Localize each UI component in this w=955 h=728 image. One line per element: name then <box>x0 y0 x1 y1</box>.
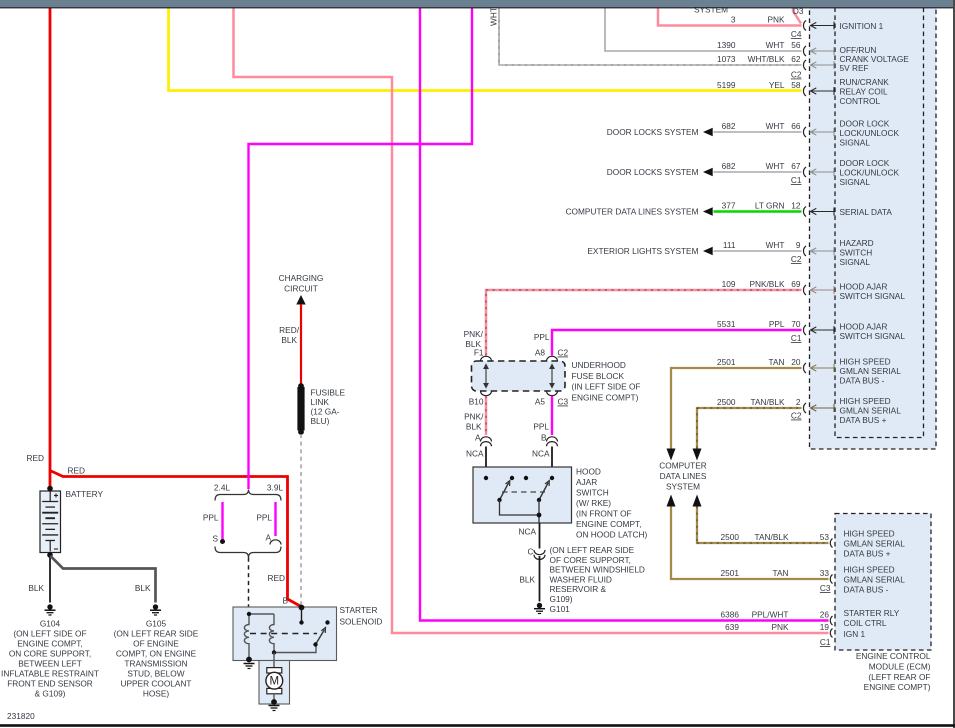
svg-text:STUD, BELOW: STUD, BELOW <box>127 669 184 679</box>
svg-text:FRONT END SENSOR: FRONT END SENSOR <box>7 679 93 689</box>
wire motor feed <box>273 653 275 669</box>
svg-text:B: B <box>282 596 288 606</box>
svg-text:C4: C4 <box>791 29 802 39</box>
svg-text:SWITCH SIGNAL: SWITCH SIGNAL <box>840 331 906 341</box>
svg-text:UPPER COOLANT: UPPER COOLANT <box>121 679 192 689</box>
svg-text:INFLATABLE RESTRAINT: INFLATABLE RESTRAINT <box>1 669 99 679</box>
connector arcs C <box>534 550 545 555</box>
svg-text:PPL: PPL <box>534 332 550 342</box>
starter motor box <box>259 661 290 705</box>
svg-text:RESERVOIR &: RESERVOIR & <box>550 584 607 594</box>
svg-text:ENGINE COMPT,: ENGINE COMPT, <box>17 639 82 649</box>
right window edge <box>953 0 955 728</box>
svg-text:DOOR LOCKS SYSTEM: DOOR LOCKS SYSTEM <box>607 127 699 137</box>
svg-text:682: 682 <box>722 161 736 171</box>
wire magenta PPL stub A <box>274 502 276 536</box>
wire pink 3 ignition-1 horizontal <box>658 8 802 26</box>
node battery negative <box>47 552 53 558</box>
svg-text:WHT: WHT <box>766 161 785 171</box>
svg-text:PNK: PNK <box>771 622 789 632</box>
svg-text:SIGNAL: SIGNAL <box>840 138 871 148</box>
battery box <box>40 491 61 553</box>
svg-text:CONTROL: CONTROL <box>840 96 881 106</box>
svg-text:M: M <box>270 676 280 688</box>
svg-text:WASHER FLUID: WASHER FLUID <box>550 574 612 584</box>
svg-text:FUSE BLOCK: FUSE BLOCK <box>572 371 625 381</box>
solenoid pull-in coil <box>244 614 249 659</box>
svg-text:ON CORE SUPPORT,: ON CORE SUPPORT, <box>9 649 91 659</box>
svg-text:LINK: LINK <box>311 397 330 407</box>
svg-text:19: 19 <box>820 622 830 632</box>
wire motor to ground <box>273 694 275 702</box>
motor brush bottom <box>267 688 282 693</box>
svg-text:YEL: YEL <box>769 80 785 90</box>
svg-text:HIGH SPEED: HIGH SPEED <box>840 357 891 367</box>
svg-text:HIGH SPEED: HIGH SPEED <box>844 565 895 575</box>
node battery positive <box>47 486 53 492</box>
svg-text:GMLAN SERIAL: GMLAN SERIAL <box>844 575 906 585</box>
wire gray 682 WHT pin67 <box>714 171 802 173</box>
svg-text:(ON LEFT REAR SIDE: (ON LEFT REAR SIDE <box>114 629 199 639</box>
svg-text:(12 GA-: (12 GA- <box>311 407 340 417</box>
svg-text:DATA BUS -: DATA BUS - <box>844 585 889 595</box>
brace bottom engine selector <box>215 547 281 558</box>
svg-text:A: A <box>265 533 271 543</box>
node solenoid fixed contact <box>325 620 329 624</box>
node S terminal <box>220 539 225 544</box>
svg-text:CIRCUIT: CIRCUIT <box>284 284 318 294</box>
svg-text:SYSTEM: SYSTEM <box>666 482 700 492</box>
fuse block arc F1 <box>481 356 492 361</box>
svg-text:2500: 2500 <box>717 397 736 407</box>
svg-text:53: 53 <box>820 532 830 542</box>
wire red fusible link to charging <box>300 304 302 386</box>
svg-text:2500: 2500 <box>721 532 740 542</box>
wire black switch to C connector <box>539 523 541 549</box>
svg-text:2.4L: 2.4L <box>214 483 231 493</box>
svg-text:COMPT, ON ENGINE: COMPT, ON ENGINE <box>116 649 197 659</box>
wire tan 2501 pin33 <box>671 506 829 579</box>
svg-text:C1: C1 <box>791 333 802 343</box>
underhood fuse block box <box>472 361 566 391</box>
ground G101 <box>537 603 542 608</box>
svg-text:HOSE): HOSE) <box>143 689 170 699</box>
svg-text:5199: 5199 <box>717 80 736 90</box>
bottom frame bar <box>0 724 955 727</box>
svg-text:BLU): BLU) <box>311 416 330 426</box>
svg-text:DATA BUS -: DATA BUS - <box>840 376 885 386</box>
wire pink 3 ignition-1 from D3 <box>793 8 801 24</box>
svg-text:C2: C2 <box>791 411 802 421</box>
svg-text:DOOR LOCKS SYSTEM: DOOR LOCKS SYSTEM <box>607 167 699 177</box>
fuse block internal arrow left <box>485 365 487 387</box>
svg-text:2501: 2501 <box>721 568 740 578</box>
wire dashed gray fusible link to solenoid B <box>300 434 302 606</box>
svg-text:WHT: WHT <box>766 121 785 131</box>
svg-text:A5: A5 <box>535 397 546 407</box>
svg-text:GMLAN SERIAL: GMLAN SERIAL <box>844 539 906 549</box>
svg-text:WHT: WHT <box>766 240 785 250</box>
svg-text:NCA: NCA <box>466 449 484 459</box>
svg-text:ENGINE COMPT): ENGINE COMPT) <box>864 682 931 692</box>
ground starter solenoid <box>244 663 255 665</box>
svg-text:DATA BUS +: DATA BUS + <box>844 549 891 559</box>
svg-text:GMLAN SERIAL: GMLAN SERIAL <box>840 406 902 416</box>
svg-text:WHT: WHT <box>489 7 499 26</box>
svg-text:MODULE (ECM): MODULE (ECM) <box>869 661 931 671</box>
svg-text:PPL: PPL <box>203 513 219 523</box>
ECM outer box (top right) <box>810 0 937 449</box>
svg-text:OF ENGINE: OF ENGINE <box>133 639 179 649</box>
svg-text:(IN FRONT OF: (IN FRONT OF <box>576 509 632 519</box>
svg-text:STARTER RLY: STARTER RLY <box>844 608 900 618</box>
svg-text:G101: G101 <box>550 604 571 614</box>
svg-text:RED: RED <box>67 466 85 476</box>
arrow up to charging circuit <box>296 295 305 305</box>
svg-text:AJAR: AJAR <box>576 477 597 487</box>
motor brush top <box>267 668 282 673</box>
svg-text:C2: C2 <box>791 254 802 264</box>
svg-text:ENGINE CONTROL: ENGINE CONTROL <box>856 651 931 661</box>
solenoid hold-in coil <box>269 614 274 652</box>
svg-text:GMLAN SERIAL: GMLAN SERIAL <box>840 366 902 376</box>
svg-text:5V REF: 5V REF <box>840 63 869 73</box>
svg-text:C1: C1 <box>820 637 831 647</box>
node motor ground <box>271 699 277 705</box>
wire pink 639 IGN1 <box>234 8 829 633</box>
fusible link F1 <box>297 387 304 431</box>
fuse block arc B10 <box>481 391 492 396</box>
svg-text:LT GRN: LT GRN <box>755 201 785 211</box>
wire coil2 to switch <box>274 645 316 653</box>
svg-text:ENGINE COMPT): ENGINE COMPT) <box>572 393 639 403</box>
svg-text:(ON LEFT REAR SIDE: (ON LEFT REAR SIDE <box>550 545 635 555</box>
wire gray 111 WHT pin9 <box>714 250 802 252</box>
svg-text:66: 66 <box>791 121 801 131</box>
svg-text:ON HOOD LATCH): ON HOOD LATCH) <box>576 530 648 540</box>
wire black battery to G104 <box>49 555 51 603</box>
motor M circle <box>266 672 283 689</box>
ground G104 <box>47 604 52 609</box>
svg-text:20: 20 <box>791 357 801 367</box>
svg-text:67: 67 <box>791 161 801 171</box>
svg-text:2: 2 <box>796 397 801 407</box>
arrow down tan left <box>667 449 676 461</box>
svg-text:BLK: BLK <box>135 583 151 593</box>
svg-text:1073: 1073 <box>717 54 736 64</box>
top window bar <box>0 0 955 7</box>
wire gray battery to G105 <box>51 556 156 603</box>
switch junction node <box>537 513 542 518</box>
svg-text:1390: 1390 <box>717 40 736 50</box>
fuse block arc A8 <box>547 356 558 361</box>
ground G105 <box>153 604 158 609</box>
node solenoid switch pivot <box>313 642 317 646</box>
svg-text:SIGNAL: SIGNAL <box>840 177 871 187</box>
wire B to contact <box>301 608 303 622</box>
svg-text:UNDERHOOD: UNDERHOOD <box>572 360 626 370</box>
svg-text:12: 12 <box>791 201 801 211</box>
svg-text:A8: A8 <box>535 348 546 358</box>
svg-text:BLK: BLK <box>466 422 482 432</box>
svg-text:PNK/: PNK/ <box>464 329 484 339</box>
svg-text:5531: 5531 <box>717 319 736 329</box>
dashed link solenoid <box>250 633 317 635</box>
arrow down tan right <box>693 449 702 461</box>
svg-text:LOCK/UNLOCK: LOCK/UNLOCK <box>840 128 900 138</box>
svg-text:DOOR LOCK: DOOR LOCK <box>840 119 890 129</box>
svg-text:PPL/WHT: PPL/WHT <box>752 610 789 620</box>
svg-text:C2: C2 <box>558 348 569 358</box>
svg-text:9: 9 <box>796 240 801 250</box>
svg-text:EXTERIOR LIGHTS SYSTEM: EXTERIOR LIGHTS SYSTEM <box>587 246 698 256</box>
svg-text:682: 682 <box>722 121 736 131</box>
svg-text:HIGH SPEED: HIGH SPEED <box>840 396 891 406</box>
arrow up tan right <box>693 495 702 507</box>
wire magenta 5531 PPL pin70 to fuse block A8 <box>552 330 802 356</box>
wire pink PNK/BLK fuse to connector A <box>485 396 488 435</box>
node fusible link top <box>298 383 304 389</box>
switch link wires <box>500 500 540 523</box>
wire black C to G101 <box>539 556 541 602</box>
switch dashed mechanical link <box>502 491 545 493</box>
svg-text:S: S <box>212 534 218 544</box>
svg-text:HOOD: HOOD <box>576 467 601 477</box>
wire magenta PPL stub S <box>221 502 223 540</box>
svg-text:COMPUTER: COMPUTER <box>659 461 706 471</box>
switch blade left <box>500 483 509 501</box>
svg-text:SIGNAL: SIGNAL <box>840 257 871 267</box>
wire green 377 LT GRN serial data <box>714 210 802 212</box>
svg-text:SWITCH: SWITCH <box>840 248 873 258</box>
wire dashed black selector to solenoid <box>248 558 250 608</box>
svg-text:G109): G109) <box>550 594 573 604</box>
wire gray 682 WHT pin66 <box>714 131 802 133</box>
svg-text:C3: C3 <box>558 397 569 407</box>
svg-text:(ON LEFT SIDE OF: (ON LEFT SIDE OF <box>13 629 86 639</box>
wire black connector B to switch <box>551 447 553 479</box>
svg-text:TAN/BLK: TAN/BLK <box>751 397 785 407</box>
svg-text:SWITCH SIGNAL: SWITCH SIGNAL <box>840 291 906 301</box>
wire yellow 5199 <box>169 8 802 91</box>
switch pivots <box>497 498 501 502</box>
svg-text:PNK: PNK <box>767 15 785 25</box>
svg-text:109: 109 <box>722 279 736 289</box>
ECM lower box (bottom right) <box>835 514 931 651</box>
svg-text:OF CORE SUPPORT,: OF CORE SUPPORT, <box>550 555 631 565</box>
svg-text:TAN: TAN <box>773 568 789 578</box>
wire tan 2500 TAN/BLK pin53 <box>697 506 829 543</box>
fuse block arc A5 <box>547 391 558 396</box>
ECM inner connector box (top right) <box>835 0 924 438</box>
wire gray 1390 WHT <box>605 8 802 51</box>
svg-text:G104: G104 <box>40 619 61 629</box>
svg-text:(IN LEFT SIDE OF: (IN LEFT SIDE OF <box>572 382 641 392</box>
svg-text:231820: 231820 <box>7 711 35 721</box>
svg-text:BLK: BLK <box>281 335 297 345</box>
svg-text:& G109): & G109) <box>35 689 66 699</box>
wire gray 1073 WHT/BLK <box>499 8 802 65</box>
svg-text:PPL: PPL <box>533 422 549 432</box>
wire tan 2501 pin20 <box>671 368 802 449</box>
node coil2 bottom <box>272 650 276 654</box>
svg-text:SOLENOID: SOLENOID <box>340 617 383 627</box>
wire black connector A to switch <box>485 447 487 479</box>
svg-text:RED: RED <box>26 453 44 463</box>
node fusible link bottom <box>298 429 304 435</box>
wire coil link <box>249 613 274 615</box>
svg-text:IGN 1: IGN 1 <box>844 629 866 639</box>
svg-text:SWITCH: SWITCH <box>576 488 609 498</box>
svg-text:C1: C1 <box>791 175 802 185</box>
svg-text:3: 3 <box>731 15 736 25</box>
svg-text:B10: B10 <box>469 397 484 407</box>
svg-text:COIL CTRL: COIL CTRL <box>844 618 887 628</box>
svg-text:6386: 6386 <box>721 610 740 620</box>
svg-text:DOOR LOCK: DOOR LOCK <box>840 158 890 168</box>
svg-text:COMPUTER DATA LINES SYSTEM: COMPUTER DATA LINES SYSTEM <box>566 207 699 217</box>
connector arcs B <box>547 437 558 442</box>
svg-text:STARTER: STARTER <box>340 605 378 615</box>
ground starter motor <box>269 705 280 707</box>
svg-text:RUN/CRANK: RUN/CRANK <box>840 77 890 87</box>
svg-text:RED: RED <box>267 573 285 583</box>
svg-text:HIGH SPEED: HIGH SPEED <box>844 529 895 539</box>
starter solenoid box <box>233 607 337 661</box>
svg-text:PNK/: PNK/ <box>464 412 484 422</box>
svg-text:377: 377 <box>722 201 736 211</box>
svg-text:SERIAL DATA: SERIAL DATA <box>840 207 893 217</box>
svg-text:ENGINE COMPT,: ENGINE COMPT, <box>576 519 641 529</box>
svg-text:DATA BUS +: DATA BUS + <box>840 415 887 425</box>
wire magenta PPL fuse to connector B <box>551 396 553 435</box>
svg-text:DATA LINES: DATA LINES <box>660 471 707 481</box>
svg-text:C: C <box>528 547 534 557</box>
switch blade right <box>539 483 548 501</box>
svg-text:RELAY COIL: RELAY COIL <box>840 87 888 97</box>
svg-text:HOOD AJAR: HOOD AJAR <box>840 282 888 292</box>
svg-text:CHARGING: CHARGING <box>279 273 324 283</box>
svg-text:58: 58 <box>791 80 801 90</box>
node coil top <box>247 612 251 616</box>
hood ajar switch box <box>473 467 572 523</box>
connector arcs A <box>481 437 492 442</box>
svg-text:2501: 2501 <box>717 357 736 367</box>
svg-text:BETWEEN WINDSHIELD: BETWEEN WINDSHIELD <box>550 565 645 575</box>
svg-text:PPL: PPL <box>769 319 785 329</box>
connector arc A terminal <box>270 540 281 545</box>
svg-text:BLK: BLK <box>28 583 44 593</box>
svg-text:HAZARD: HAZARD <box>840 238 874 248</box>
node solenoid coil ground <box>246 657 252 663</box>
wire magenta PPL to S terminal <box>249 8 473 489</box>
wire red battery feed vertical <box>49 8 52 487</box>
switch contact dots <box>484 476 488 480</box>
svg-text:NCA: NCA <box>518 527 536 537</box>
svg-text:FUSIBLE: FUSIBLE <box>311 388 346 398</box>
svg-text:IGNITION 1: IGNITION 1 <box>840 21 884 31</box>
svg-text:BLK: BLK <box>465 339 481 349</box>
svg-text:RED/: RED/ <box>279 325 300 335</box>
svg-text:TAN/BLK: TAN/BLK <box>755 532 789 542</box>
brace top engine selector <box>215 490 281 501</box>
fuse block internal arrow right <box>551 365 553 387</box>
wire pink 109 PNK/BLK pin69 to fuse block F1 <box>486 290 802 356</box>
svg-text:111: 111 <box>723 240 736 250</box>
svg-text:NCA: NCA <box>532 449 550 459</box>
battery symbol plates <box>49 492 51 502</box>
svg-text:PNK/BLK: PNK/BLK <box>749 279 785 289</box>
svg-text:WHT/BLK: WHT/BLK <box>748 54 785 64</box>
svg-text:G105: G105 <box>146 619 167 629</box>
svg-text:3.9L: 3.9L <box>267 483 284 493</box>
svg-text:LOCK/UNLOCK: LOCK/UNLOCK <box>840 168 900 178</box>
svg-text:639: 639 <box>725 622 739 632</box>
svg-text:PPL: PPL <box>256 513 272 523</box>
svg-text:69: 69 <box>791 279 801 289</box>
arrow up tan left <box>667 495 676 507</box>
svg-text:C2: C2 <box>791 70 802 80</box>
wire red battery-to-solenoid <box>50 471 301 607</box>
node B terminal <box>299 605 305 611</box>
svg-text:TRANSMISSION: TRANSMISSION <box>124 659 187 669</box>
svg-text:33: 33 <box>820 568 830 578</box>
wire tan 2500 TAN/BLK pin2 <box>697 408 802 449</box>
svg-text:BATTERY: BATTERY <box>66 489 104 499</box>
svg-text:(W/ RKE): (W/ RKE) <box>576 498 611 508</box>
node solenoid contact feed <box>299 620 303 624</box>
svg-text:56: 56 <box>791 40 801 50</box>
svg-text:BLK: BLK <box>519 575 535 585</box>
wire magenta 6386 starter relay coil <box>420 8 829 621</box>
svg-text:62: 62 <box>791 54 801 64</box>
svg-text:TAN: TAN <box>769 357 785 367</box>
svg-text:C3: C3 <box>820 583 831 593</box>
svg-text:F1: F1 <box>474 348 484 358</box>
svg-text:BETWEEN LEFT: BETWEEN LEFT <box>18 659 82 669</box>
svg-text:70: 70 <box>791 319 801 329</box>
svg-text:WHT: WHT <box>766 40 785 50</box>
svg-text:(LEFT REAR OF: (LEFT REAR OF <box>868 672 930 682</box>
svg-text:26: 26 <box>820 610 830 620</box>
solenoid switch blade <box>316 630 325 645</box>
svg-text:HOOD AJAR: HOOD AJAR <box>840 322 888 332</box>
